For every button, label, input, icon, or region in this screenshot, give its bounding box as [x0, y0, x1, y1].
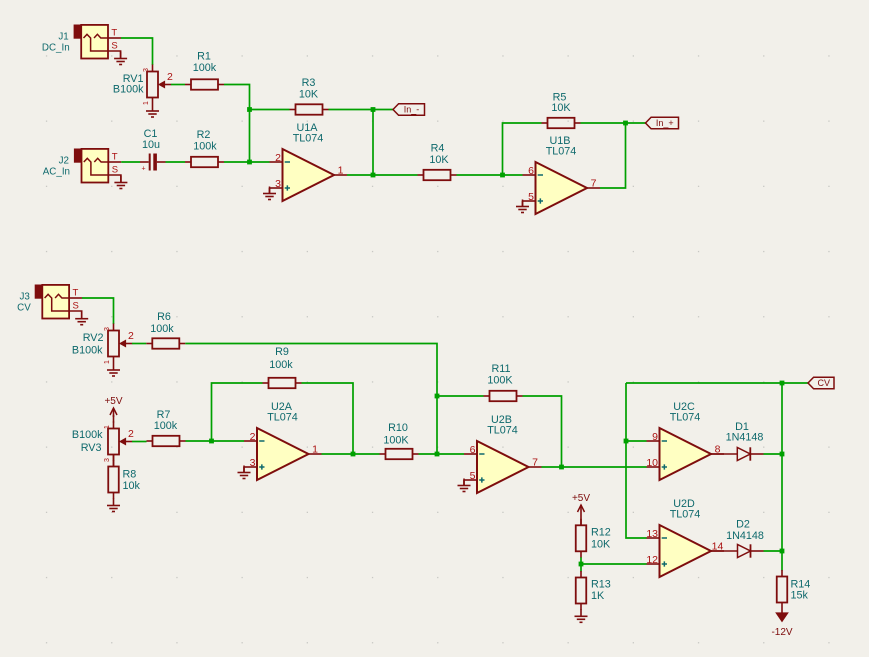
svg-text:R13: R13: [591, 579, 611, 591]
svg-text:10k: 10k: [123, 480, 141, 492]
ground (RV2 pin1): [107, 363, 120, 376]
wire U2A output to R10: [322, 453, 380, 455]
svg-text:12: 12: [646, 554, 658, 566]
svg-text:R4: R4: [431, 143, 445, 155]
svg-text:R1: R1: [197, 51, 211, 63]
svg-text:R3: R3: [302, 77, 316, 89]
svg-text:1: 1: [104, 360, 111, 364]
junction U2C pin9 tap: [624, 439, 629, 444]
ground (RV1 pin1): [146, 104, 159, 117]
wire R4 to U1B pin6: [457, 174, 523, 176]
resistor R8 10K: [108, 460, 140, 499]
junction node A (R3 row): [247, 107, 252, 112]
svg-text:3: 3: [104, 327, 111, 331]
wire R7 to U2A pin2: [186, 440, 245, 442]
svg-text:CV: CV: [17, 303, 31, 314]
svg-text:6: 6: [528, 165, 534, 177]
svg-text:TL074: TL074: [293, 133, 324, 145]
svg-text:R9: R9: [275, 346, 289, 358]
svg-text:1: 1: [104, 425, 111, 429]
svg-text:DC_In: DC_In: [42, 43, 70, 54]
svg-text:100k: 100k: [269, 359, 293, 371]
wire C1 to R2: [166, 161, 186, 163]
svg-text:2: 2: [275, 152, 281, 164]
svg-text:3: 3: [250, 457, 256, 469]
svg-text:100k: 100k: [193, 141, 217, 153]
wire R6 to right trunk down to R10 node: [185, 344, 437, 455]
svg-text:R11: R11: [491, 363, 510, 375]
junction U2B output node: [559, 465, 564, 470]
junction R4-U1B node: [500, 173, 505, 178]
op-amp U2A TL074: [244, 401, 322, 480]
svg-text:1: 1: [338, 165, 344, 177]
wire R10 to U2B pin6: [419, 453, 465, 455]
resistor R14 15k: [777, 570, 811, 609]
svg-text:3: 3: [143, 68, 150, 72]
wire node A to R3: [250, 109, 290, 111]
wire J2 tip to C1: [121, 161, 140, 163]
svg-text:In_+: In_+: [656, 118, 674, 128]
svg-text:T: T: [112, 152, 118, 163]
svg-text:B100k: B100k: [72, 429, 103, 441]
svg-text:6: 6: [470, 444, 476, 456]
resistor R6 100k: [146, 311, 185, 349]
global label In_-: [393, 104, 425, 116]
wire +5V to RV3 top: [113, 415, 115, 423]
svg-text:5: 5: [470, 470, 476, 482]
wire RV3 pin1 to R8: [113, 455, 115, 467]
svg-text:J2: J2: [59, 156, 69, 167]
junction R10-trunk node: [435, 452, 440, 457]
svg-text:D2: D2: [736, 519, 750, 531]
ground (J3 sleeve): [75, 312, 88, 325]
svg-text:R8: R8: [123, 469, 137, 481]
wire R9 left to U2A input node: [212, 383, 263, 441]
svg-text:10: 10: [646, 457, 658, 469]
svg-text:1K: 1K: [591, 590, 605, 602]
svg-text:100k: 100k: [154, 420, 178, 432]
svg-text:10K: 10K: [429, 154, 449, 166]
svg-text:+5V: +5V: [572, 493, 590, 504]
power -12V (R14 bottom): [771, 609, 792, 638]
svg-text:CV: CV: [817, 378, 830, 388]
global label CV: [808, 377, 834, 389]
connector J1 DC_In audio jack: [42, 25, 121, 59]
svg-text:AC_In: AC_In: [43, 167, 70, 178]
svg-text:S: S: [73, 301, 79, 312]
svg-text:TL074: TL074: [487, 425, 518, 437]
wire In_- node down to U1A output row: [372, 110, 374, 176]
op-amp U1B TL074: [523, 135, 601, 214]
svg-text:100K: 100K: [487, 375, 513, 387]
resistor R1 100k: [185, 51, 224, 90]
ground (U2B pin5): [458, 479, 471, 492]
potentiometer RV1: [143, 65, 173, 105]
wire right trunk: [781, 383, 783, 571]
diode D1 1N4148: [711, 421, 764, 461]
resistor R4 10K: [418, 143, 457, 181]
ground (U2A pin3): [238, 466, 251, 479]
diode D2 1N4148: [711, 519, 764, 558]
op-amp U1A TL074: [270, 122, 348, 201]
svg-text:S: S: [112, 165, 118, 176]
resistor R3 10K: [290, 77, 329, 115]
ground (J1 sleeve): [114, 52, 127, 65]
wire J1 tip to RV1 top: [121, 38, 153, 65]
ground (R13 bottom): [575, 609, 588, 622]
svg-text:T: T: [73, 288, 79, 299]
power +5V (RV3): [104, 396, 122, 417]
junction CV node: [780, 381, 785, 386]
svg-text:100K: 100K: [383, 435, 409, 447]
power +5V (R12): [572, 493, 590, 514]
svg-text:10u: 10u: [142, 139, 160, 151]
svg-text:R12: R12: [591, 527, 611, 539]
svg-text:R10: R10: [388, 422, 408, 434]
svg-text:100k: 100k: [150, 323, 174, 335]
svg-text:R6: R6: [157, 311, 171, 323]
svg-text:J3: J3: [19, 292, 30, 303]
svg-text:B100k: B100k: [72, 345, 103, 357]
resistor R2 100k: [185, 129, 224, 167]
resistor R9 100k: [263, 346, 302, 388]
op-amp U2D TL074: [646, 498, 724, 577]
wire R11 to U2B output node: [523, 396, 562, 467]
svg-text:S: S: [111, 41, 117, 52]
svg-text:J1: J1: [58, 32, 68, 43]
wire feedback up to R5: [503, 123, 542, 175]
junction In_- node: [371, 107, 376, 112]
svg-text:TL074: TL074: [267, 412, 298, 424]
svg-text:15k: 15k: [791, 590, 809, 602]
svg-text:-12V: -12V: [771, 627, 792, 638]
wire +5V to R12: [580, 514, 582, 525]
svg-text:+5V: +5V: [104, 396, 122, 407]
ground (U1A pin3): [263, 187, 276, 200]
svg-text:B100k: B100k: [113, 84, 144, 96]
capacitor C1 10u: [140, 128, 166, 173]
label RV2 B100k: [72, 332, 104, 357]
junction R12-R13 node: [579, 562, 584, 567]
wire R2 to U1A pin2: [224, 161, 270, 163]
resistor R5 10K: [542, 92, 581, 129]
wire U1A output to R4: [347, 174, 418, 176]
connector J2 AC_In audio jack: [43, 149, 122, 183]
ground (J2 sleeve): [114, 176, 127, 189]
junction D1 node: [780, 452, 785, 457]
svg-text:TL074: TL074: [670, 412, 701, 424]
svg-text:2: 2: [128, 330, 134, 342]
wire D1 to right trunk: [764, 453, 783, 455]
connector J3 CV audio jack: [17, 285, 82, 319]
wire RV1 wiper to R1: [171, 84, 185, 86]
junction D2 node: [780, 549, 785, 554]
wire J3 tip to RV2 top: [82, 298, 114, 324]
wire R9 right down to U2A output: [302, 383, 354, 454]
svg-text:9: 9: [652, 431, 658, 443]
junction R7-U2A node: [209, 439, 214, 444]
wire R12 to R13 node: [580, 557, 582, 571]
resistor R13 1K: [576, 571, 611, 610]
svg-text:TL074: TL074: [670, 509, 701, 521]
svg-text:In_-: In_-: [404, 105, 420, 115]
svg-text:2: 2: [250, 431, 256, 443]
svg-text:3: 3: [275, 178, 281, 190]
wire CV trunk horizontal: [626, 382, 808, 384]
wire D2 to right trunk: [764, 550, 783, 552]
svg-text:10K: 10K: [591, 539, 611, 551]
resistor R12 10K: [576, 519, 611, 558]
resistor R7 100k: [147, 409, 186, 446]
svg-text:RV2: RV2: [83, 332, 104, 344]
op-amp U2C TL074: [646, 401, 724, 480]
svg-text:7: 7: [591, 178, 597, 190]
junction U1A output node: [371, 173, 376, 178]
wire R11 tap to R11: [437, 395, 484, 397]
wire U2B output to U2C pin10: [542, 466, 647, 468]
svg-text:3: 3: [104, 458, 111, 462]
svg-text:R2: R2: [197, 129, 211, 141]
junction node A (R2 row): [247, 160, 252, 165]
svg-text:TL074: TL074: [546, 146, 577, 158]
svg-text:T: T: [111, 28, 117, 39]
wire U1B output up to In_+ node: [600, 123, 626, 188]
svg-text:1: 1: [143, 101, 150, 105]
svg-text:100k: 100k: [193, 62, 217, 74]
wire RV2 wiper to R6: [132, 343, 146, 345]
wire R5 to In_+ label: [581, 122, 646, 124]
svg-text:2: 2: [128, 428, 134, 440]
potentiometer RV3: [104, 422, 134, 462]
svg-text:1N4148: 1N4148: [726, 432, 764, 444]
svg-text:7: 7: [532, 457, 538, 469]
svg-text:5: 5: [528, 191, 534, 203]
wire CV trunk vertical to U2D pin13: [626, 383, 647, 538]
wire R1 to node A trunk: [224, 85, 250, 163]
label RV1 B100k: [113, 73, 144, 96]
svg-text:2: 2: [167, 71, 173, 83]
wire tap to U2C pin9: [626, 440, 647, 442]
resistor R11 100K: [484, 363, 523, 401]
junction In_+ node: [623, 121, 628, 126]
svg-text:10K: 10K: [299, 89, 319, 101]
svg-text:10K: 10K: [551, 102, 571, 114]
ground (R8 bottom): [107, 499, 120, 512]
svg-text:1: 1: [312, 444, 318, 456]
wire R3 to In_- label: [329, 109, 394, 111]
junction R11 tap: [435, 394, 440, 399]
global label In_+: [646, 117, 679, 129]
svg-text:+: +: [142, 166, 146, 173]
potentiometer RV2: [104, 324, 134, 364]
ground (U1B pin5): [516, 200, 529, 213]
wire node to U2D pin12: [581, 563, 647, 565]
svg-text:RV3: RV3: [81, 442, 102, 454]
junction U2A output node: [351, 452, 356, 457]
svg-text:1N4148: 1N4148: [726, 530, 764, 542]
svg-text:13: 13: [646, 528, 658, 540]
wire RV3 wiper to R7: [132, 441, 147, 443]
op-amp U2B TL074: [464, 414, 542, 493]
resistor R10 100K: [380, 422, 419, 459]
label RV3 B100k: [72, 429, 103, 454]
